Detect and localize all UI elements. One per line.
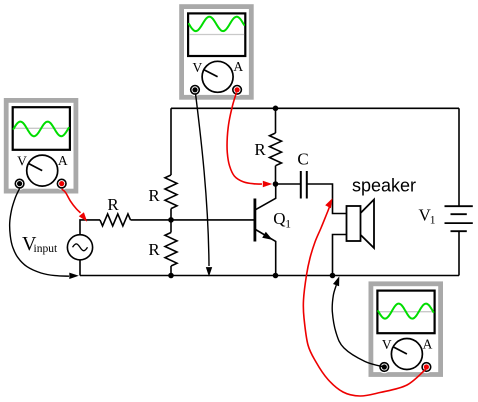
- meter M2 (left, across V_input) black terminal: [13, 177, 25, 189]
- meter M2 (left, across V_input) waveform trace: [14, 122, 69, 137]
- transistor Q1 collector: [256, 184, 276, 210]
- meter M2 (left, across V_input) red terminal: [56, 177, 68, 189]
- probe wire M3 red to speaker top wire: [303, 198, 426, 396]
- probe wire M1 black to bottom rail: [196, 94, 213, 277]
- node junction dot emitter on rail: [273, 273, 279, 279]
- meter M2 (left, across V_input) needle: [28, 163, 42, 170]
- wire speaker bottom to rail: [333, 235, 347, 276]
- wire R3 to base junction and transistor base: [131, 219, 255, 221]
- source V_input circle: [67, 235, 92, 260]
- node junction dot speaker bottom on rail: [330, 273, 336, 279]
- meter M2 (left, across V_input) frame: [4, 98, 79, 194]
- resistor R2 (lower divider): [165, 233, 177, 266]
- wire bottom rail: [80, 275, 459, 277]
- svg-text:R: R: [148, 240, 160, 259]
- meter M1 (top, across R4) screen centerline: [189, 34, 244, 36]
- source V_input sine symbol: [73, 244, 88, 251]
- transistor Q1 emitter arrow: [262, 232, 272, 240]
- svg-text:1: 1: [285, 219, 291, 231]
- speaker cone: [361, 200, 374, 249]
- wire R4 to collector node: [275, 166, 277, 184]
- label V1: [419, 206, 436, 227]
- resistor R3 (series input): [100, 214, 130, 226]
- meter M1 (top, across R4) black terminal: [189, 84, 201, 96]
- meter M1 (top, across R4) dial: [202, 61, 233, 92]
- svg-text:input: input: [34, 243, 58, 255]
- node junction dot base divider node: [168, 217, 174, 223]
- node junction dot divider bottom on rail: [168, 273, 174, 279]
- wire collector node to capacitor: [276, 183, 301, 185]
- meter M1 (top, across R4) red terminal: [231, 84, 243, 96]
- node junction dot collector node: [273, 181, 279, 187]
- svg-text:V: V: [193, 60, 203, 75]
- meter M3 (bottom, across speaker) black terminal: [378, 361, 390, 373]
- battery V1 plates: [445, 206, 473, 231]
- meter M3 (bottom, across speaker) red terminal: [420, 361, 432, 373]
- meter M2 (left, across V_input) screen: [13, 107, 70, 150]
- meter M2 (left, across V_input) screen centerline: [14, 127, 69, 129]
- wire top rail to collector resistor: [275, 108, 277, 133]
- transistor Q1 emitter: [256, 230, 276, 276]
- meter M3 (bottom, across speaker) screen centerline: [379, 311, 434, 313]
- meter M1 (top, across R4) screen: [188, 13, 245, 56]
- svg-text:1: 1: [430, 215, 436, 227]
- probe wire M2 red to V_input top node: [62, 189, 87, 222]
- wire top rail right branch to battery: [458, 108, 460, 206]
- svg-text:speaker: speaker: [352, 176, 416, 196]
- label V_input: [22, 233, 58, 255]
- transistor Q1 bar: [253, 199, 256, 242]
- meter M2 (left, across V_input) dial: [27, 155, 58, 186]
- svg-text:R: R: [254, 140, 266, 159]
- meter M3 (bottom, across speaker) waveform trace: [378, 304, 433, 319]
- svg-text:C: C: [297, 150, 308, 169]
- wire battery to bottom rail: [458, 231, 460, 275]
- wire Vinput top corner to series resistor: [80, 220, 100, 235]
- svg-text:A: A: [233, 59, 243, 74]
- meter M3 (bottom, across speaker) needle: [393, 347, 407, 354]
- wire base node to R2: [170, 220, 172, 233]
- meter M3 (bottom, across speaker) frame: [369, 281, 444, 377]
- speaker driver rectangle: [347, 206, 361, 241]
- label Q1: [273, 209, 291, 231]
- wire R2 to bottom rail: [170, 266, 172, 276]
- resistor R4 (collector): [270, 133, 282, 166]
- svg-text:A: A: [58, 153, 68, 168]
- probe wire M3 black to bottom rail: [332, 276, 384, 367]
- svg-text:R: R: [107, 195, 119, 214]
- meter M1 (top, across R4) frame: [179, 4, 254, 100]
- svg-text:V: V: [17, 154, 27, 169]
- svg-text:A: A: [423, 336, 433, 351]
- meter M3 (bottom, across speaker) dial: [391, 339, 422, 370]
- svg-text:V: V: [382, 337, 392, 352]
- meter M1 (top, across R4) needle: [204, 70, 218, 77]
- probe wire M1 red to collector node: [227, 93, 272, 188]
- resistor R1 (upper divider): [165, 175, 177, 209]
- wire V_input bottom stem: [79, 260, 81, 276]
- svg-text:Q: Q: [273, 209, 285, 228]
- node junction dot top rail / R4: [273, 106, 279, 112]
- wire R1 to base node: [170, 209, 172, 220]
- wire top rail: [171, 107, 459, 109]
- meter M3 (bottom, across speaker) screen: [377, 291, 434, 334]
- meter M1 (top, across R4) waveform trace: [189, 17, 244, 31]
- wire capacitor to speaker top: [307, 184, 347, 214]
- svg-text:R: R: [148, 186, 160, 205]
- capacitor C plates: [301, 171, 307, 199]
- probe wire M2 black to V_input bottom: [10, 189, 79, 280]
- wire left branch vertical (rail to upper divider resistor): [170, 108, 172, 175]
